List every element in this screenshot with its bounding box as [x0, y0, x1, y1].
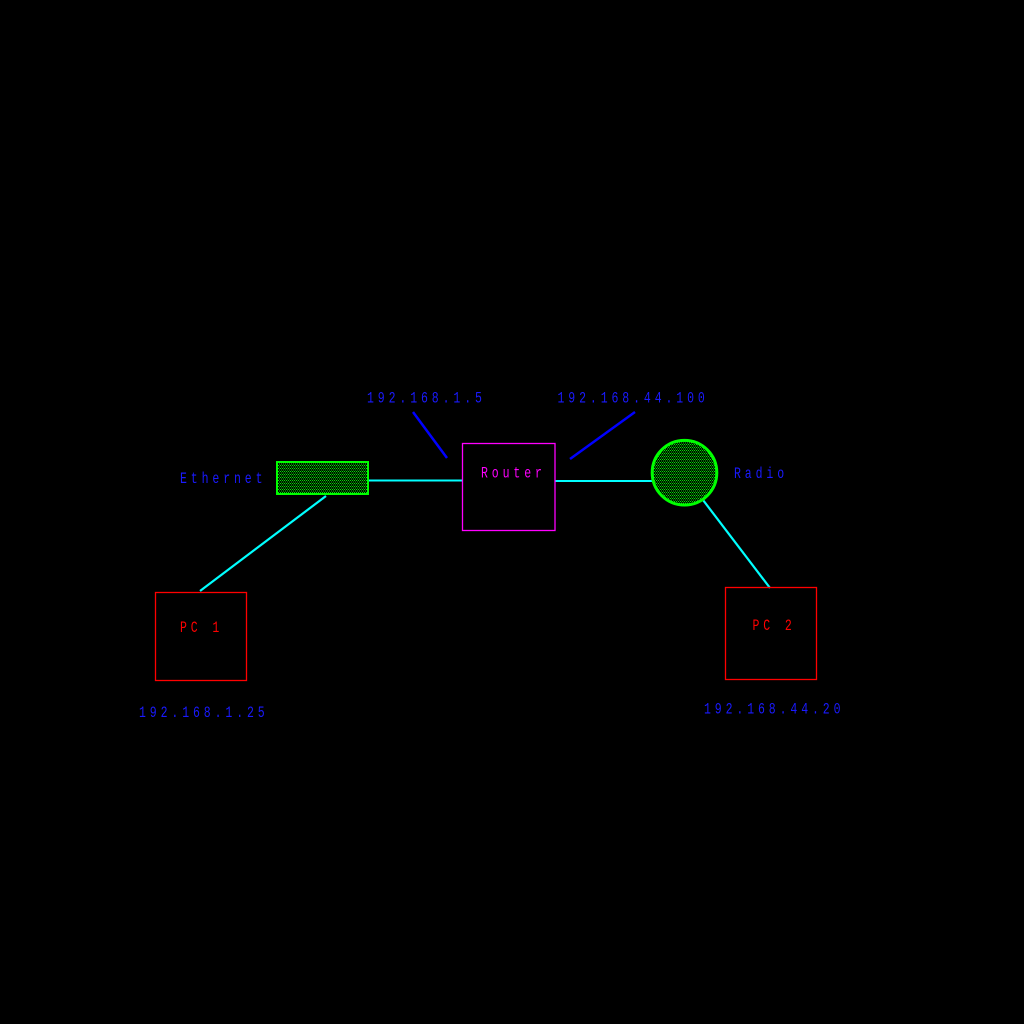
router box (magenta) — [463, 444, 556, 531]
svg-text:PC 1: PC 1 — [180, 619, 223, 637]
radio node circle (green hatched) — [652, 440, 717, 505]
wire radio-to-PC2 (cyan diagonal) — [703, 500, 770, 588]
label 192.168.44.20 (PC 2 IP) — [704, 701, 844, 719]
label Ethernet — [180, 470, 266, 488]
svg-text:Router: Router — [481, 465, 546, 483]
wire ethernet-to-router (cyan) — [369, 480, 462, 482]
svg-text:192.168.44.20: 192.168.44.20 — [704, 701, 844, 719]
wire ethernet-to-PC1 (cyan diagonal) — [200, 496, 326, 591]
svg-text:Radio: Radio — [734, 465, 788, 483]
label Router — [481, 465, 546, 483]
svg-text:Ethernet: Ethernet — [180, 470, 266, 488]
pointer line from label 192.168.1.5 to router (blue) — [413, 412, 447, 458]
PC 1 box (red) — [156, 593, 247, 681]
label 192.168.44.100 (router right interface IP) — [558, 390, 709, 408]
svg-text:192.168.44.100: 192.168.44.100 — [558, 390, 709, 408]
pointer line from label 192.168.44.100 to router (blue) — [570, 412, 635, 459]
label 192.168.1.25 (PC 1 IP) — [139, 704, 269, 722]
wire router-to-radio (cyan) — [555, 480, 652, 482]
label 192.168.1.5 (router left interface IP) — [367, 390, 486, 408]
ethernet segment box (green hatched) — [277, 462, 368, 494]
PC 2 box (red) — [726, 588, 817, 680]
label PC 1 — [180, 619, 223, 637]
svg-text:192.168.1.25: 192.168.1.25 — [139, 704, 269, 722]
svg-text:PC 2: PC 2 — [753, 617, 796, 635]
label PC 2 — [753, 617, 796, 635]
svg-text:192.168.1.5: 192.168.1.5 — [367, 390, 486, 408]
label Radio — [734, 465, 788, 483]
